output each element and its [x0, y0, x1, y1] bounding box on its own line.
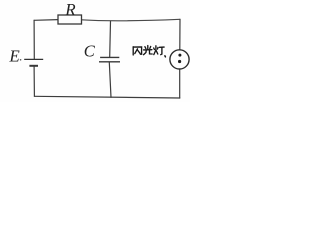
svg-text:C: C	[84, 42, 96, 61]
capacitor C bottom plate	[99, 61, 120, 63]
glyph 灯	[154, 46, 166, 57]
wire right vertical lower	[179, 69, 181, 98]
wire top-right segment	[82, 19, 181, 20]
label E trailing dot	[20, 59, 22, 61]
svg-text:E: E	[8, 46, 20, 65]
battery E short plate	[29, 65, 38, 67]
glyph 闪	[133, 47, 141, 55]
battery E long plate	[24, 58, 43, 60]
wire top-left segment	[34, 19, 58, 22]
resistor R	[58, 15, 82, 24]
svg-text:R: R	[64, 0, 76, 19]
wire bottom segment	[34, 96, 179, 98]
wire capacitor branch upper	[109, 21, 112, 57]
capacitor C top plate	[100, 56, 119, 58]
wire left vertical lower	[33, 66, 35, 96]
lamp (flash lamp) circle	[170, 50, 189, 69]
lamp electrode dot upper	[178, 54, 181, 57]
label 闪光灯 (flash lamp)	[133, 46, 165, 57]
wire capacitor branch lower	[109, 62, 111, 97]
wire right vertical upper	[179, 19, 181, 50]
lamp electrode dot lower	[178, 60, 181, 63]
glyph 光	[144, 46, 153, 55]
wire left vertical upper	[33, 20, 35, 59]
